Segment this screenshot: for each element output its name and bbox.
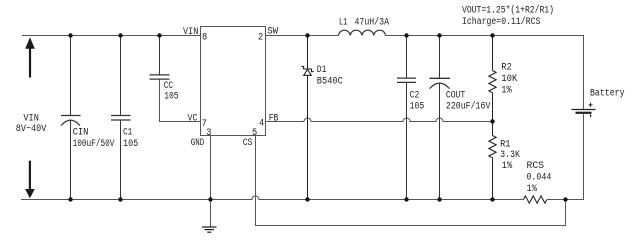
resistor RCS (current sense)	[524, 196, 548, 203]
wire bottom ground rail (hops over CS line)	[21, 196, 524, 200]
svg-text:D1: D1	[317, 65, 327, 76]
svg-text:VIN: VIN	[183, 27, 198, 38]
svg-text:1%: 1%	[501, 86, 511, 97]
svg-text:Battery: Battery	[590, 89, 625, 100]
svg-text:105: 105	[123, 139, 138, 150]
node C1 top	[118, 33, 122, 37]
node CIN top	[68, 33, 72, 37]
svg-text:C2: C2	[410, 91, 420, 102]
node FB junction	[490, 119, 494, 123]
wire FB line from IC pin4 to R2/R1 node (hops over D1, C2, COUT)	[266, 118, 493, 122]
capacitor C1	[111, 36, 131, 200]
svg-text:47uH/3A: 47uH/3A	[355, 17, 390, 29]
node CS/RCS junction	[563, 197, 567, 201]
svg-text:8: 8	[202, 32, 207, 44]
svg-text:CS: CS	[243, 138, 253, 149]
svg-text:GND: GND	[191, 138, 204, 149]
svg-text:0.044: 0.044	[527, 172, 552, 183]
node R2 top	[490, 33, 494, 37]
IC U1 body	[201, 27, 266, 136]
node R1 bottom	[490, 197, 494, 201]
svg-text:8V~40V: 8V~40V	[16, 124, 47, 135]
svg-text:COUT: COUT	[446, 91, 465, 102]
svg-text:220uF/16V: 220uF/16V	[446, 100, 491, 112]
wire VC line from CC to IC pin7	[160, 79, 201, 121]
svg-text:105: 105	[164, 92, 178, 103]
capacitor COUT (polarized)	[430, 36, 451, 200]
svg-text:VC: VC	[188, 113, 198, 124]
node COUT bottom	[437, 197, 441, 201]
diode D1 (schottky)	[302, 36, 314, 200]
svg-text:3: 3	[206, 127, 211, 139]
svg-text:3.3K: 3.3K	[500, 150, 520, 161]
svg-text:FB: FB	[269, 113, 279, 124]
svg-text:R2: R2	[501, 63, 512, 74]
wire top input rail	[22, 35, 201, 37]
capacitor CC	[150, 36, 170, 80]
svg-text:105: 105	[410, 101, 425, 112]
svg-text:C1: C1	[123, 128, 132, 139]
VIN up arrow (input polarity)	[25, 37, 35, 77]
svg-text:4: 4	[259, 117, 264, 129]
svg-text:L1: L1	[339, 18, 347, 29]
svg-text:CIN: CIN	[73, 128, 89, 139]
svg-text:Icharge=0.11/RCS: Icharge=0.11/RCS	[462, 16, 540, 28]
capacitor CIN (polarized)	[61, 36, 81, 200]
svg-text:CC: CC	[164, 81, 173, 92]
svg-text:5: 5	[252, 127, 257, 139]
svg-text:1%: 1%	[502, 161, 512, 172]
node CIN bottom	[68, 197, 72, 201]
wire GND pin3 down to ground	[210, 136, 212, 228]
svg-text:100uF/50V: 100uF/50V	[73, 138, 115, 150]
wire CS pin5 down, right and up to RCS/battery node	[256, 136, 566, 226]
node D1 top	[305, 33, 309, 37]
wire L1 output rail to battery corner	[386, 36, 584, 110]
resistor R1	[489, 122, 496, 200]
inductor L1	[339, 30, 386, 35]
node D1 bottom	[305, 197, 309, 201]
node C2 top	[404, 33, 408, 37]
svg-text:VIN: VIN	[23, 114, 39, 125]
node C1 bottom	[118, 197, 122, 201]
VIN down arrow (input polarity)	[25, 161, 35, 199]
svg-text:B540C: B540C	[317, 76, 343, 87]
svg-text:RCS: RCS	[527, 161, 545, 172]
svg-text:SW: SW	[267, 27, 278, 38]
svg-text:10K: 10K	[501, 74, 517, 85]
ground	[202, 227, 217, 232]
wire RCS right lead to battery bottom corner	[547, 114, 584, 200]
resistor R2	[489, 36, 496, 122]
svg-text:1%: 1%	[527, 184, 537, 195]
wire SW output to L1	[266, 35, 339, 37]
svg-text:VOUT=1.25*(1+R2/R1): VOUT=1.25*(1+R2/R1)	[462, 4, 554, 16]
node C2 bottom	[404, 197, 408, 201]
battery	[572, 103, 596, 117]
svg-text:2: 2	[258, 32, 263, 44]
node GND rail	[208, 197, 212, 201]
svg-text:R1: R1	[500, 139, 510, 150]
capacitor C2	[397, 36, 416, 200]
node COUT top	[437, 33, 441, 37]
node CC top	[157, 33, 161, 37]
